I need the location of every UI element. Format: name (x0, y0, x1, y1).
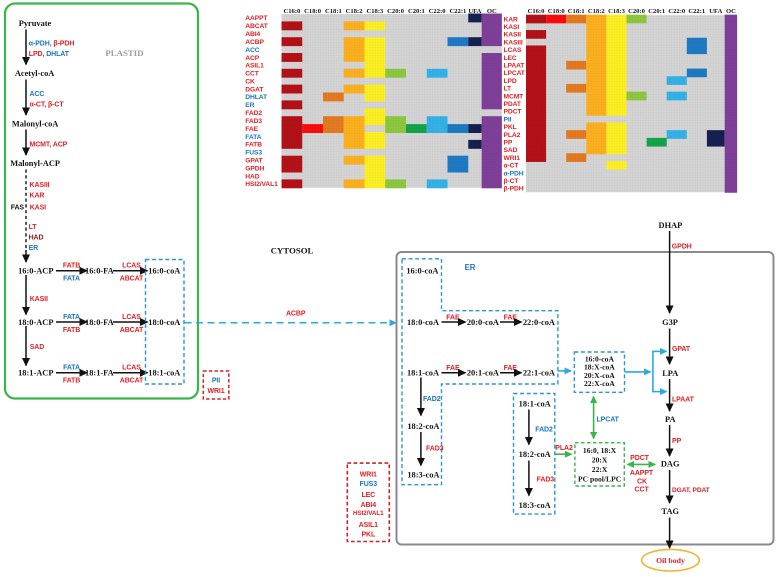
arrow LPA to PA (669, 379, 671, 411)
svg-text:Pyruvate: Pyruvate (19, 19, 52, 28)
svg-text:β-CT: β-CT (504, 178, 520, 185)
svg-text:C20:1: C20:1 (648, 8, 665, 15)
svg-text:C18:2: C18:2 (588, 8, 606, 15)
svg-text:WRI1: WRI1 (504, 155, 521, 162)
svg-text:LCAS: LCAS (122, 365, 141, 372)
svg-text:HAD: HAD (245, 173, 259, 180)
svg-text:LT: LT (29, 224, 38, 231)
green arrow PLA2 (556, 453, 572, 455)
svg-text:18:2-coA: 18:2-coA (519, 450, 551, 459)
svg-text:ACC: ACC (30, 91, 45, 98)
red dashed box PII WRI1 (203, 371, 229, 399)
svg-text:LPAAT: LPAAT (672, 397, 695, 404)
svg-text:C18:1: C18:1 (568, 8, 585, 15)
blue dashed ER elongation region outline (402, 259, 558, 485)
svg-text:OC: OC (726, 8, 736, 15)
svg-text:DHLAT: DHLAT (245, 94, 268, 101)
arrow 20:1-coA to 22:1-coA (500, 372, 522, 374)
svg-text:KASI: KASI (504, 24, 520, 31)
svg-text:FAE: FAE (446, 365, 460, 372)
svg-text:G3P: G3P (662, 318, 678, 327)
svg-text:FUS3: FUS3 (360, 481, 378, 488)
arrow 18:2-coA to 18:3-coA (FAD3) (420, 432, 422, 466)
svg-text:C22:0: C22:0 (668, 8, 686, 15)
arrow 18:0-FA to 18:0-coA (113, 321, 148, 323)
svg-text:PDCT: PDCT (630, 455, 649, 462)
svg-text:C18:1: C18:1 (325, 8, 342, 15)
svg-text:FAD3: FAD3 (245, 118, 262, 125)
svg-text:C16:0: C16:0 (528, 8, 546, 15)
svg-text:DHAP: DHAP (659, 221, 683, 230)
arrow 18:0-coA to 20:0-coA (442, 321, 466, 323)
svg-text:ASIL1: ASIL1 (245, 63, 264, 70)
svg-text:LPAAT: LPAAT (504, 63, 526, 70)
svg-text:FAD2: FAD2 (423, 396, 441, 403)
heatmap 2 cells (526, 15, 737, 193)
svg-text:18:3-coA: 18:3-coA (519, 501, 551, 510)
svg-text:HSI2/VAL1: HSI2/VAL1 (245, 181, 278, 188)
svg-text:LCAS: LCAS (504, 47, 522, 54)
svg-text:HAD: HAD (29, 235, 44, 242)
heatmap 1 row labels (245, 15, 278, 188)
svg-text:ABCAT: ABCAT (120, 327, 144, 334)
svg-text:CK: CK (245, 79, 255, 86)
svg-text:α-PDH: α-PDH (504, 170, 524, 177)
svg-text:22:X-coA: 22:X-coA (584, 379, 615, 388)
svg-text:C18:3: C18:3 (366, 8, 384, 15)
blue dashed box acyl-coA pool (574, 352, 624, 392)
svg-text:PII: PII (504, 116, 512, 123)
arrow 18:0-ACP to 18:0-FA (56, 321, 87, 323)
arrow 18:1-coA to 20:1-coA (442, 372, 466, 374)
svg-text:FAD2: FAD2 (245, 110, 262, 117)
svg-text:PP: PP (504, 140, 513, 147)
arrow Pyruvate to Acetyl-coA (25, 30, 27, 65)
svg-text:C18:3: C18:3 (608, 8, 626, 15)
svg-text:FATA: FATA (63, 276, 80, 283)
svg-text:Oil body: Oil body (656, 556, 685, 565)
svg-text:ACC: ACC (245, 47, 259, 54)
svg-text:α-CT: α-CT (504, 163, 520, 170)
svg-text:FAD3: FAD3 (426, 445, 444, 452)
svg-text:KASII: KASII (30, 296, 48, 303)
green dashed box PC pool (575, 443, 624, 486)
svg-text:KASII: KASII (504, 32, 522, 39)
svg-text:PII: PII (212, 378, 220, 385)
red dashed box transcription factors (347, 463, 389, 541)
svg-text:PC pool/LPC: PC pool/LPC (578, 475, 621, 484)
svg-text:18:0-FA: 18:0-FA (85, 318, 114, 327)
svg-text:16:0, 18:X: 16:0, 18:X (583, 446, 617, 455)
svg-text:CCT: CCT (635, 487, 650, 494)
cyan connector pool to bracket (625, 371, 651, 373)
svg-text:LCAS: LCAS (122, 314, 141, 321)
svg-text:FAS: FAS (11, 204, 25, 211)
svg-text:CCT: CCT (245, 71, 259, 78)
svg-text:LPD, DHLAT: LPD, DHLAT (29, 51, 70, 58)
arrow 16:0-ACP to 18:0-ACP (25, 275, 27, 315)
heatmap 2 row labels (504, 16, 526, 192)
dashed cyan ACBP transport arrow (185, 322, 397, 324)
svg-text:22:0-coA: 22:0-coA (523, 318, 555, 327)
arrow 16:0-ACP to 16:0-FA (56, 270, 87, 272)
arrow 18:1-FA to 18:1-coA (113, 372, 148, 374)
cyan arrow to LPAAT (652, 391, 666, 393)
svg-text:FATA: FATA (245, 134, 261, 141)
svg-text:22:X: 22:X (592, 465, 608, 474)
arrow 18:0-ACP to 18:1-ACP (25, 326, 27, 366)
svg-text:CK: CK (637, 478, 647, 485)
svg-text:ABI4: ABI4 (245, 31, 260, 38)
svg-text:20:X: 20:X (592, 456, 608, 465)
svg-text:LPD: LPD (504, 78, 517, 85)
svg-text:FAD3: FAD3 (537, 477, 555, 484)
arrow 18:2-coA to 18:3-coA (528, 461, 530, 496)
svg-text:ACBP: ACBP (245, 39, 264, 46)
svg-text:PLASTID: PLASTID (105, 48, 143, 58)
blue dashed box desaturation chain (514, 394, 555, 515)
svg-text:FAD2: FAD2 (535, 427, 553, 434)
svg-text:DGAT: DGAT (245, 86, 264, 93)
svg-text:CYTOSOL: CYTOSOL (271, 245, 314, 255)
cyan arrow to GPAT (652, 350, 666, 352)
svg-text:PLA2: PLA2 (504, 132, 521, 139)
arrow 20:0-coA to 22:0-coA (500, 321, 522, 323)
svg-text:AAPPT: AAPPT (630, 470, 654, 477)
arrow DAG to TAG (669, 470, 671, 503)
svg-text:C20:0: C20:0 (628, 8, 646, 15)
svg-text:FAE: FAE (245, 126, 258, 133)
svg-text:FAE: FAE (504, 314, 518, 321)
green double arrow LPCAT (593, 397, 595, 439)
svg-text:SAD: SAD (504, 147, 518, 154)
svg-text:ER: ER (29, 245, 39, 252)
ER compartment box (397, 252, 774, 545)
svg-text:ER: ER (245, 102, 254, 109)
green double arrow PDCT (628, 463, 656, 465)
svg-text:C20:0: C20:0 (387, 8, 405, 15)
arrow TAG to Oil body (669, 518, 671, 549)
heatmap 2 column headers (528, 8, 737, 15)
svg-text:β-PDH: β-PDH (504, 186, 524, 193)
svg-text:KAR: KAR (30, 193, 45, 200)
svg-text:18:1-FA: 18:1-FA (85, 369, 114, 378)
arrow 18:1-coA to 18:2-coA (FAD2) (420, 378, 422, 416)
svg-text:18:3-coA: 18:3-coA (407, 470, 439, 479)
svg-text:MCMT: MCMT (504, 93, 525, 100)
svg-text:LPA: LPA (662, 369, 678, 378)
svg-text:ER: ER (465, 263, 476, 272)
svg-text:LEC: LEC (361, 492, 375, 499)
arrow 16:0-FA to 16:0-coA (113, 270, 148, 272)
svg-text:SAD: SAD (30, 344, 45, 351)
svg-text:ABCAT: ABCAT (120, 276, 144, 283)
arrow PA to DAG (669, 425, 671, 456)
dashed FAS arrow Malonyl-ACP to 16:0-ACP (25, 170, 27, 253)
svg-text:GPAT: GPAT (245, 158, 263, 165)
svg-text:18:2-coA: 18:2-coA (407, 422, 439, 431)
svg-text:16:0-FA: 16:0-FA (85, 267, 114, 276)
svg-text:C16:0: C16:0 (283, 8, 301, 15)
svg-text:GPAT: GPAT (672, 346, 691, 353)
svg-text:C22:0: C22:0 (429, 8, 447, 15)
svg-text:PDAT: PDAT (504, 101, 522, 108)
svg-text:22:1-coA: 22:1-coA (523, 369, 555, 378)
svg-text:ABI4: ABI4 (361, 502, 377, 509)
svg-text:LPCAT: LPCAT (597, 417, 620, 424)
plastid compartment box (5, 4, 198, 399)
svg-text:18:0-ACP: 18:0-ACP (18, 318, 53, 327)
svg-text:FATB: FATB (63, 263, 80, 270)
svg-text:KASIII: KASIII (30, 182, 50, 189)
svg-text:PA: PA (665, 415, 676, 424)
heatmap 2 background grid (526, 15, 737, 192)
svg-text:ABCAT: ABCAT (245, 23, 268, 30)
svg-text:FAE: FAE (504, 365, 518, 372)
svg-text:GPDH: GPDH (672, 244, 692, 251)
svg-text:C22:1: C22:1 (688, 8, 705, 15)
svg-text:16:0-coA: 16:0-coA (148, 267, 180, 276)
blue dashed box around plastid acyl-coA pool (146, 260, 185, 385)
svg-text:LPCAT: LPCAT (504, 70, 526, 77)
svg-text:FUS3: FUS3 (245, 150, 262, 157)
svg-text:FATA: FATA (63, 365, 80, 372)
svg-text:TAG: TAG (662, 507, 680, 516)
svg-text:PKL: PKL (361, 532, 376, 539)
cyan arrow 22:1-coA to pool (558, 370, 572, 372)
svg-text:FAE: FAE (446, 314, 460, 321)
arrow DHAP to G3P (669, 231, 671, 313)
svg-text:UFA: UFA (709, 8, 722, 15)
svg-text:DAG: DAG (661, 460, 680, 469)
svg-text:HSI2/VAL1: HSI2/VAL1 (353, 510, 384, 517)
svg-text:PDCT: PDCT (504, 109, 523, 116)
svg-text:KASIII: KASIII (504, 39, 523, 46)
arrow Malonyl-coA to Malonyl-ACP (25, 130, 27, 156)
svg-text:18:0-coA: 18:0-coA (148, 318, 180, 327)
svg-text:GPDH: GPDH (245, 165, 264, 172)
svg-text:WRI1: WRI1 (207, 388, 224, 395)
arrow Acetyl-coA to Malonyl-coA (25, 80, 27, 116)
cyan bracket vertical (652, 351, 654, 391)
arrow 18:1-coA to 18:2-coA (528, 410, 530, 445)
svg-text:C22:1: C22:1 (449, 8, 466, 15)
svg-text:LCAS: LCAS (122, 263, 141, 270)
svg-text:ASIL1: ASIL1 (359, 522, 379, 529)
svg-text:PKL: PKL (504, 124, 517, 131)
svg-text:ABCAT: ABCAT (120, 378, 144, 385)
svg-text:16:0-ACP: 16:0-ACP (18, 267, 53, 276)
svg-text:AAPPT: AAPPT (245, 15, 268, 22)
svg-text:18:1-coA: 18:1-coA (148, 369, 180, 378)
arrow G3P to LPA (669, 329, 671, 365)
svg-text:20:1-coA: 20:1-coA (467, 369, 499, 378)
svg-text:PP: PP (672, 438, 682, 445)
svg-text:PLA2: PLA2 (555, 445, 573, 452)
svg-text:FATB: FATB (63, 327, 80, 334)
svg-text:Acetyl-coA: Acetyl-coA (15, 69, 55, 78)
heatmap 1 dot texture (282, 14, 502, 188)
svg-text:FATB: FATB (245, 142, 262, 149)
svg-text:18:0-coA: 18:0-coA (407, 318, 439, 327)
svg-text:MCMT, ACP: MCMT, ACP (30, 142, 68, 149)
svg-text:ACBP: ACBP (286, 310, 306, 317)
svg-text:LEC: LEC (504, 55, 517, 62)
svg-text:KASI: KASI (30, 204, 46, 211)
svg-text:C18:0: C18:0 (548, 8, 566, 15)
svg-text:α-PDH, β-PDH: α-PDH, β-PDH (29, 41, 75, 48)
heatmap 1 cells (282, 14, 502, 189)
svg-text:DGAT, PDAT: DGAT, PDAT (672, 487, 710, 494)
svg-text:Malonyl-ACP: Malonyl-ACP (10, 159, 60, 168)
svg-text:Malonyl-coA: Malonyl-coA (12, 119, 59, 128)
svg-text:18:1-coA: 18:1-coA (407, 369, 439, 378)
heatmap 1 column headers (283, 8, 497, 15)
svg-text:20:0-coA: 20:0-coA (467, 318, 499, 327)
arrow 18:1-ACP to 18:1-FA (56, 372, 87, 374)
svg-text:C20:1: C20:1 (408, 8, 425, 15)
svg-text:KAR: KAR (504, 16, 518, 23)
heatmap 1 background grid (282, 14, 502, 188)
svg-text:18:1-ACP: 18:1-ACP (18, 369, 53, 378)
svg-text:18:1-coA: 18:1-coA (519, 399, 551, 408)
svg-text:16:0-coA: 16:0-coA (406, 267, 438, 276)
svg-text:FATB: FATB (63, 378, 80, 385)
Oil body ellipse (642, 549, 700, 571)
svg-text:C18:2: C18:2 (346, 8, 364, 15)
svg-text:ACP: ACP (245, 55, 259, 62)
svg-text:α-CT, β-CT: α-CT, β-CT (30, 102, 65, 109)
svg-text:FATA: FATA (63, 314, 80, 321)
svg-text:LT: LT (504, 86, 512, 93)
svg-text:C18:0: C18:0 (304, 8, 322, 15)
svg-text:WRI1: WRI1 (360, 471, 377, 478)
heatmap 2 dot texture (526, 15, 737, 192)
